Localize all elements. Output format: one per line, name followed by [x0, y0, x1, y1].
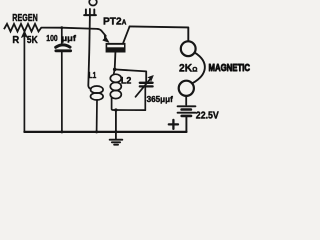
battery plus sign [169, 120, 178, 129]
svg-text:L2: L2 [121, 76, 131, 86]
headphone earpiece top circle [181, 41, 196, 56]
svg-text:R: R [12, 35, 20, 46]
capacitor 100uuf top lead [61, 28, 63, 44]
wire: phones to battery [185, 96, 187, 105]
svg-text:22.5V: 22.5V [196, 110, 219, 121]
headphone cord arc [192, 53, 204, 84]
headphone earpiece bottom circle [179, 81, 194, 96]
svg-text:MAGNETIC: MAGNETIC [209, 63, 251, 74]
wire: top right rail from collector to phones [130, 26, 189, 41]
paper background [0, 0, 284, 149]
svg-text:5K: 5K [27, 35, 38, 46]
transistor base lead [114, 52, 117, 69]
coil L2 loops [110, 74, 121, 82]
variable capacitor arrow [136, 79, 151, 97]
svg-text:365μμf: 365μμf [147, 94, 173, 104]
wire: junction into L2 [114, 69, 115, 74]
wire: antenna mast down to coil L1 [88, 9, 91, 89]
wire: variable cap bottom lead [144, 86, 146, 110]
capacitor 100uuf straight plate [56, 49, 71, 52]
node dot L1 lead on rail [95, 130, 98, 133]
svg-text:100: 100 [46, 33, 58, 43]
svg-text:2K: 2K [179, 63, 192, 75]
battery B1 22.5V plates [178, 105, 196, 107]
node junction dot base/L2/cap [113, 68, 117, 72]
transistor Q1 emitter arrowhead [103, 35, 109, 43]
wire: battery to bottom rail [185, 117, 187, 132]
wire: top rail from resistor to antenna/emitter junction [41, 28, 97, 29]
wire: bottom rail [24, 131, 186, 133]
svg-text:μμf: μμf [62, 33, 77, 43]
svg-text:A: A [122, 20, 127, 27]
svg-text:PT2: PT2 [103, 16, 122, 28]
potentiometer wiper arrow [23, 36, 25, 132]
wire: emitter lead from top rail into transistor [98, 29, 106, 36]
node dot tank bottom [114, 108, 117, 111]
wire: tank bottom drop to rail [115, 110, 117, 139]
ground symbol [110, 139, 123, 141]
capacitor 100uuf bottom lead wire [61, 52, 63, 132]
coil L1 loops [91, 86, 104, 93]
wire: junction to variable capacitor [115, 69, 147, 81]
node dot tank lead on rail [114, 130, 117, 133]
transistor U1 PT2A body box [106, 43, 126, 53]
node junction dot at 100uuf top [60, 26, 63, 29]
antenna symbol (trident) [85, 9, 87, 14]
svg-text:REGEN: REGEN [12, 13, 38, 24]
wire: L2 bottom to tank bottom [112, 98, 146, 111]
transistor collector lead [123, 26, 129, 43]
variable capacitor C1 bottom plate [140, 85, 153, 87]
svg-text:L1: L1 [89, 71, 97, 80]
svg-text:Ω: Ω [192, 67, 197, 74]
wire: L1 bottom lead [96, 100, 98, 132]
antenna loop circle [89, 0, 97, 6]
resistor R (5K potentiometer) zigzag [4, 24, 41, 32]
variable capacitor C1 top plate [140, 82, 153, 84]
capacitor 100uuf curved plate [56, 45, 70, 47]
node dot cap lead on rail [60, 130, 63, 133]
